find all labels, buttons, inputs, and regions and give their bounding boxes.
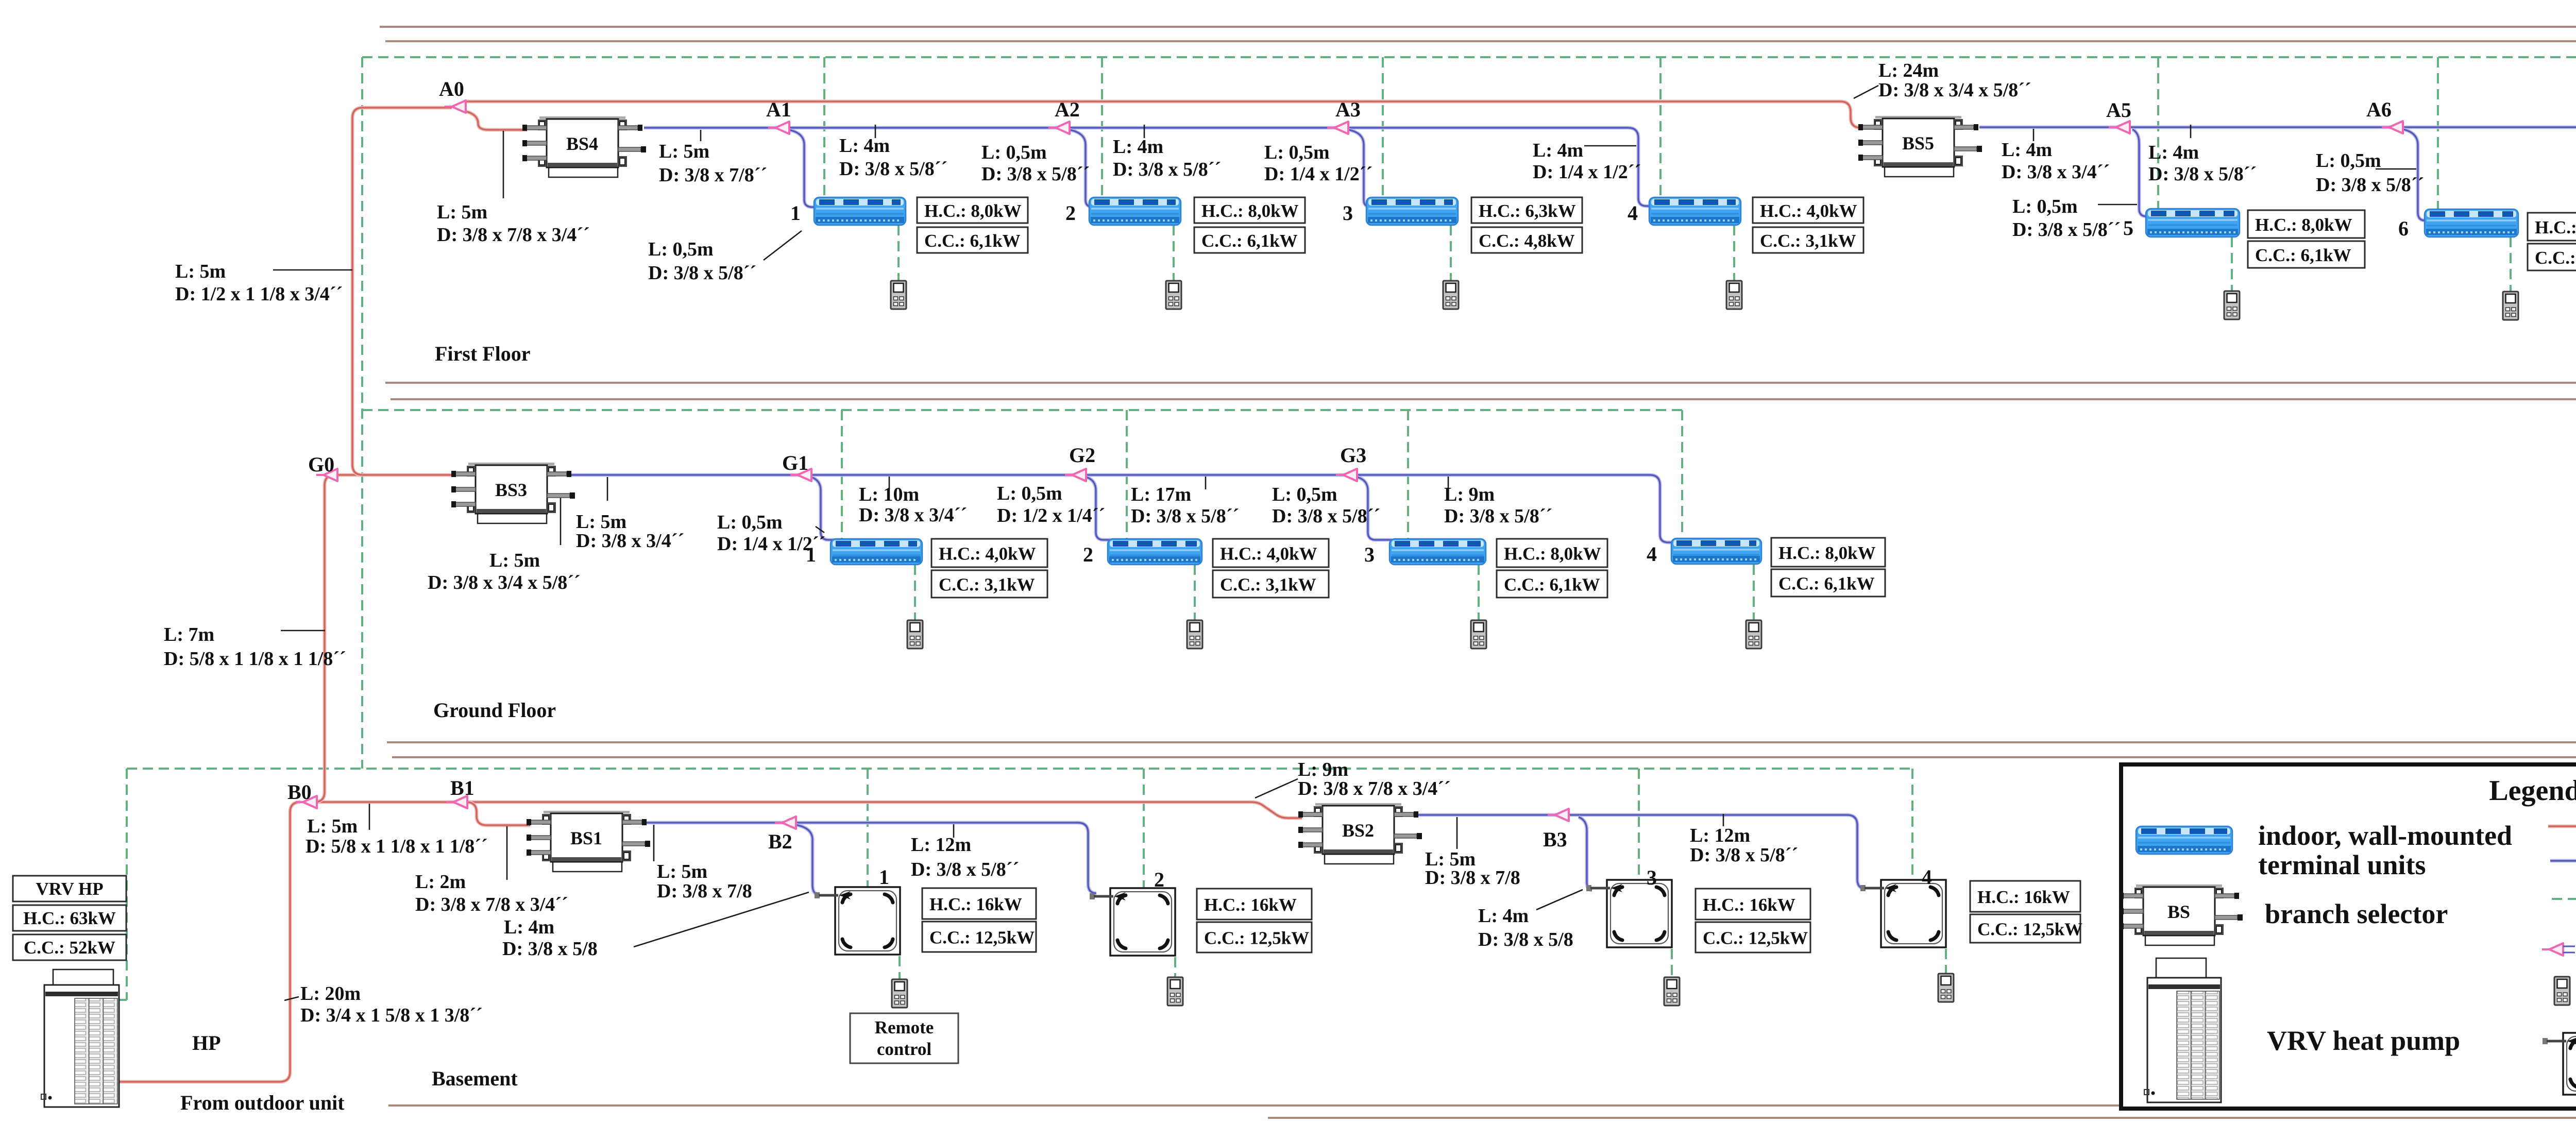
svg-text:Ground Floor: Ground Floor — [433, 699, 556, 722]
branch selector BS5 — [1858, 116, 1982, 177]
capacity box H.C.: 4,0kW at 1808,1046 — [931, 539, 1047, 567]
capacity box C.C.: 6,1kW at 2905,1107 — [1497, 570, 1607, 598]
capacity box H.C.: 16kW at 2323,1725 — [1197, 889, 1312, 920]
indoor wall-mounted terminal unit: ground floor unit 4 — [1671, 538, 1761, 564]
capacity box C.C.: 3,1kW at 3402,441 — [1753, 227, 1863, 253]
svg-text:BS4: BS4 — [566, 133, 598, 154]
svg-text:C.C.: 6,1kW: C.C.: 6,1kW — [1201, 231, 1298, 251]
svg-text:L: 7m: L: 7m — [164, 624, 214, 645]
pipe label unit5 drop — [2012, 196, 2121, 241]
svg-text:L: 24m: L: 24m — [1878, 60, 1939, 81]
svg-text:L: 4m: L: 4m — [839, 135, 890, 157]
svg-text:H.C.: 4,0kW: H.C.: 4,0kW — [1760, 201, 1857, 221]
svg-text:H.C.: 16kW: H.C.: 16kW — [1977, 887, 2070, 907]
svg-text:VRV HP: VRV HP — [36, 879, 103, 899]
leader: unit5 drop label — [2098, 204, 2137, 206]
svg-text:C.C.: 12,5kW: C.C.: 12,5kW — [1703, 928, 1808, 948]
svg-text:C.C.: 12,5kW: C.C.: 12,5kW — [1977, 920, 2082, 940]
remote control F1 — [891, 281, 906, 309]
capacity box H.C.: 4,0kW at 2354,1046 — [1213, 539, 1329, 567]
pipe label A2 drop — [981, 142, 1090, 185]
svg-text:C.C.: 12,5kW: C.C.: 12,5kW — [1204, 928, 1309, 948]
capacity box C.C.: 12,5kW at 3824,1775 — [1970, 914, 2080, 943]
signal line: drop to heat pump — [126, 769, 128, 1000]
floor slab line (top, lower) — [385, 40, 2576, 42]
refrigerant flow separator A3 — [1327, 122, 1348, 134]
pipe: double refrigerant, A6 branch to unit 6 — [2403, 129, 2428, 220]
svg-text:D: 1/4 x 1/2´´: D: 1/4 x 1/2´´ — [1533, 161, 1641, 183]
svg-text:3: 3 — [1364, 543, 1375, 566]
svg-text:D: 3/8 x 7/8 x 3/4´´: D: 3/8 x 7/8 x 3/4´´ — [1298, 778, 1451, 799]
svg-text:H.C.: 4,0kW: H.C.: 4,0kW — [1220, 544, 1317, 564]
svg-text:C.C.: 6,1kW: C.C.: 6,1kW — [924, 231, 1021, 251]
remote control B2 — [1167, 977, 1183, 1006]
svg-text:D: 3/8 x 5/8´´: D: 3/8 x 5/8´´ — [1444, 505, 1552, 527]
VRV heat pump (outdoor unit) — [41, 969, 119, 1107]
pipe: triple refrigerant, B1 branch into BS1 — [466, 802, 530, 825]
svg-text:A5: A5 — [2106, 98, 2131, 122]
svg-text:D: 3/8 x 5/8: D: 3/8 x 5/8 — [1478, 929, 1573, 950]
svg-text:2: 2 — [1065, 201, 1076, 225]
capacity box C.C.: 12,5kW at 3291,1790 — [1696, 922, 1810, 952]
legend signal line symbol — [2552, 898, 2576, 900]
svg-text:B0: B0 — [287, 780, 312, 804]
svg-text:H.C.: 8,0kW: H.C.: 8,0kW — [1201, 201, 1299, 221]
svg-text:D: 1/2 x 1 1/8 x 3/4´´: D: 1/2 x 1 1/8 x 3/4´´ — [175, 283, 343, 305]
svg-text:D: 3/8 x 5/8´´: D: 3/8 x 5/8´´ — [911, 859, 1019, 880]
svg-text:1: 1 — [879, 865, 889, 889]
capacity box C.C.: 3,1kW at 2354,1107 — [1213, 570, 1329, 598]
pipe: double refrigerant, BS1 to B2 and unit 2 — [645, 823, 1096, 893]
pipe label A2 segment — [1113, 136, 1221, 180]
svg-text:D: 1/2 x 1/4´´: D: 1/2 x 1/4´´ — [997, 505, 1105, 526]
pipe label BS1 right — [657, 861, 752, 902]
pipe: double refrigerant, B3 branch to basement unit 3 — [1579, 817, 1592, 890]
svg-text:4: 4 — [1647, 542, 1657, 566]
svg-text:BS: BS — [2167, 901, 2190, 922]
svg-text:6: 6 — [2398, 217, 2409, 240]
capacity box H.C.: 6,3kW at 2856,383 — [1471, 197, 1582, 223]
capacity box C.C.: 3,1kW at 1808,1107 — [931, 570, 1047, 598]
svg-text:L: 5m: L: 5m — [175, 261, 226, 282]
signal line: bus drop to basement unit x=2220 — [1143, 769, 1145, 888]
floor slab line (bottom) — [388, 1104, 2576, 1107]
svg-text:C.C.: 3,1kW: C.C.: 3,1kW — [1220, 575, 1316, 595]
pipe label G1 segment — [859, 484, 967, 526]
pipe: triple refrigerant, riser B0 to G0 — [325, 475, 335, 792]
pipe: double refrigerant, A5 branch to unit 5 — [2132, 129, 2149, 216]
pipe label BS5 right — [2002, 139, 2110, 183]
legend box — [2121, 764, 2576, 1109]
pipe: triple refrigerant, heat pump to B0 riser — [119, 802, 300, 1082]
pipe label basement unit1 — [502, 916, 598, 960]
svg-text:L: 12m: L: 12m — [1690, 825, 1750, 846]
signal line: bus drop to wall unit x=4189 — [2157, 57, 2159, 209]
svg-text:L: 5m: L: 5m — [659, 141, 709, 162]
svg-text:L: 9m: L: 9m — [1444, 484, 1495, 505]
svg-text:L: 9m: L: 9m — [1298, 759, 1348, 780]
signal line: drop to basement unit 4 — [1911, 769, 1913, 880]
capacity box H.C.: 8,0kW at 2318,383 — [1194, 197, 1305, 223]
svg-text:control: control — [877, 1039, 932, 1059]
signal line: bus drop to basement unit x=1684 — [867, 769, 869, 887]
svg-text:H.C.: 16kW: H.C.: 16kW — [1204, 895, 1297, 915]
svg-text:G0: G0 — [308, 453, 334, 476]
pipe: double refrigerant, BS3 to G1 G2 G3 and ground unit 4 — [571, 475, 1674, 542]
signal line: bus drop to wall unit x=3223 — [1659, 57, 1662, 197]
svg-text:First Floor: First Floor — [435, 342, 531, 365]
svg-text:D: 3/8 x 7/8 x 3/4´´: D: 3/8 x 7/8 x 3/4´´ — [437, 224, 590, 246]
svg-text:D: 3/8 x 7/8: D: 3/8 x 7/8 — [1425, 867, 1520, 889]
capacity box C.C.: 12,5kW at 1790,1789 — [922, 922, 1036, 952]
svg-text:H.C.: 16kW: H.C.: 16kW — [1703, 895, 1795, 915]
leader: G1 drop label hook — [816, 526, 824, 533]
leader: BS3 right label — [607, 477, 608, 501]
svg-text:D: 3/8 x 5/8: D: 3/8 x 5/8 — [502, 938, 598, 960]
capacity box H.C.: 8,0kW at 1780,383 — [917, 197, 1028, 223]
svg-text:L: 0,5m: L: 0,5m — [981, 142, 1047, 163]
svg-text:L: 4m: L: 4m — [2148, 142, 2199, 163]
capacity box C.C.: 12,5kW at 2323,1790 — [1197, 922, 1312, 952]
svg-text:L: 4m: L: 4m — [1113, 136, 1163, 158]
leader: HP pipe label — [284, 997, 299, 1000]
branch selector BS3 — [451, 463, 575, 523]
svg-text:L: 5m: L: 5m — [489, 550, 540, 571]
indoor roof-mounted terminal unit: basement unit 2 — [1090, 888, 1175, 956]
floor slab line (below first floor, upper) — [385, 382, 2576, 384]
leader: unit6 drop label — [2376, 168, 2416, 170]
pipe label basement riser — [306, 815, 488, 857]
pipe label BS4 right — [659, 141, 767, 186]
refrigerant flow separator G3 — [1336, 469, 1357, 481]
svg-text:H.C.: 63kW: H.C.: 63kW — [23, 908, 116, 928]
svg-text:D: 3/8 x 5/8´´: D: 3/8 x 5/8´´ — [648, 262, 756, 284]
pipe: triple refrigerant, A0 to BS5 long line — [464, 101, 1863, 128]
refrigerant flow separator B1 — [446, 796, 467, 808]
indoor roof-mounted terminal unit: basement unit 4 — [1860, 880, 1946, 947]
pipe label G2 segment — [1131, 484, 1239, 527]
pipe label A1 segment — [839, 135, 947, 180]
svg-text:3: 3 — [1343, 201, 1353, 225]
legend roof-mounted unit symbol — [2543, 1033, 2576, 1095]
svg-text:Basement: Basement — [432, 1067, 518, 1090]
refrigerant flow separator A2 — [1048, 122, 1070, 134]
signal line: basement bus — [127, 768, 1912, 770]
pipe: double refrigerant, BS2 to B3 and unit 4 — [1417, 815, 1866, 889]
svg-text:1: 1 — [790, 201, 801, 225]
svg-text:C.C.: 12,5kW: C.C.: 12,5kW — [929, 928, 1035, 948]
leader: L9m G3 segment — [1448, 477, 1449, 489]
pipe label BS3 right — [576, 511, 684, 552]
capacity box H.C.: 8,0kW at 3438,1044 — [1771, 538, 1885, 567]
signal line: wall unit to remote x=3366 — [1733, 225, 1735, 281]
pipe: double refrigerant, G2 branch to ground unit 2 — [1086, 477, 1111, 540]
svg-text:H.C.: 8,0kW: H.C.: 8,0kW — [924, 201, 1022, 221]
leader: BS3 left label — [560, 497, 562, 545]
leader: BS2 right label — [1456, 817, 1458, 849]
signal line: ground floor bus — [362, 409, 1682, 411]
leader: BS5 right label — [2033, 129, 2035, 141]
leader: BS1 left label — [506, 826, 508, 880]
legend remote control symbol — [2554, 977, 2570, 1005]
pipe label G1 drop — [717, 512, 825, 555]
svg-text:C.C.: 3,1kW: C.C.: 3,1kW — [939, 575, 1035, 595]
pipe: triple refrigerant, riser joins B0 — [314, 792, 325, 802]
svg-text:L: 10m: L: 10m — [859, 484, 919, 505]
refrigerant flow separator G1 — [790, 469, 811, 481]
leader: basement unit1 label — [634, 892, 809, 947]
remote control F6 — [2503, 292, 2518, 320]
svg-text:terminal units: terminal units — [2258, 849, 2426, 880]
svg-text:L: 4m: L: 4m — [1478, 905, 1529, 927]
svg-text:D: 1/4 x 1/2´´: D: 1/4 x 1/2´´ — [1264, 163, 1372, 185]
svg-text:A6: A6 — [2366, 98, 2392, 121]
svg-text:H.C.: 8,0kW: H.C.: 8,0kW — [1504, 544, 1601, 564]
floor slab line (below ground floor, upper) — [387, 741, 2576, 743]
svg-text:H.C.: 16kW: H.C.: 16kW — [929, 894, 1022, 914]
signal line: drop to ground unit 4 — [1681, 410, 1683, 538]
svg-text:H.C.: 4,0kW: H.C.: 4,0kW — [939, 544, 1036, 564]
signal line: basement unit to remote x=2281 — [1174, 957, 1176, 977]
indoor roof-mounted terminal unit: basement unit 3 — [1586, 880, 1672, 947]
pipe label BS1 left — [415, 871, 568, 915]
svg-text:D: 3/8 x 5/8´´: D: 3/8 x 5/8´´ — [1131, 505, 1239, 527]
signal line: bus drop to wall unit x=2139 — [1101, 57, 1103, 197]
indoor wall-mounted terminal unit: first floor unit 5 — [2146, 209, 2240, 237]
refrigerant flow separator A5 — [2109, 121, 2130, 133]
svg-text:C.C.: 4,8kW: C.C.: 4,8kW — [1479, 231, 1575, 251]
svg-text:D: 3/8 x 5/8´´: D: 3/8 x 5/8´´ — [1113, 159, 1221, 180]
indoor roof-mounted terminal unit: basement unit 1 — [815, 887, 900, 955]
branch selector BS4 — [522, 116, 646, 177]
svg-text:H.C.: 8,0kW: H.C.: 8,0kW — [2535, 217, 2576, 237]
pipe label unit1 drop — [648, 239, 756, 284]
svg-text:B2: B2 — [768, 830, 792, 853]
leader: L4m A1 segment — [875, 125, 876, 138]
svg-text:G2: G2 — [1069, 444, 1095, 467]
svg-text:L: 4m: L: 4m — [504, 916, 554, 938]
svg-text:2: 2 — [1083, 543, 1093, 566]
signal line: bus drop to basement unit x=3181 — [1638, 769, 1640, 880]
remote control F5 — [2224, 291, 2240, 319]
capacity box C.C.: 6,1kW at 4906,473 — [2528, 244, 2576, 270]
svg-text:D: 3/4 x 1 5/8 x 1 3/8´´: D: 3/4 x 1 5/8 x 1 3/8´´ — [300, 1005, 483, 1026]
svg-text:A3: A3 — [1335, 98, 1361, 121]
signal line: ground unit to remote x=3404 — [1753, 565, 1755, 620]
indoor wall-mounted terminal unit: ground floor unit 2 — [1108, 539, 1202, 565]
svg-text:L: 2m: L: 2m — [415, 871, 466, 893]
remote control B4 — [1938, 974, 1954, 1002]
refrigerant flow separator A1 — [768, 122, 789, 134]
leader: L17m G2 segment — [1205, 477, 1207, 489]
indoor wall-mounted terminal unit: first floor unit 6 — [2425, 209, 2518, 237]
signal line: into heat pump — [119, 999, 127, 1001]
refrigerant flow separator A0 — [445, 100, 466, 113]
signal line: wall unit to remote x=1744 — [897, 225, 900, 281]
capacity box H.C.: 8,0kW at 2905,1046 — [1497, 539, 1607, 567]
signal line: basement unit to remote x=3777 — [1945, 949, 1947, 974]
pipe label first floor riser — [175, 261, 343, 305]
signal line: wall unit to remote x=4332 — [2231, 237, 2233, 291]
pipe: triple refrigerant, B0 to B1 to BS2 jog — [304, 802, 1302, 818]
svg-text:L: 5m: L: 5m — [576, 511, 626, 533]
pipe: triple refrigerant, A0 horizontal into arrow — [363, 106, 452, 110]
signal line: wall unit to remote x=4873 — [2510, 237, 2512, 292]
pipe: double refrigerant, BS4 to A1 A2 A3 and unit 4 — [644, 128, 1652, 206]
capacity box H.C.: 16kW at 1790,1724 — [922, 888, 1036, 919]
floor slab line (bottom right, lower) — [1268, 1117, 2576, 1119]
pipe: double refrigerant, G3 branch to ground unit 3 — [1357, 477, 1392, 540]
pipe: double refrigerant, A1 branch to unit 1 — [789, 130, 817, 207]
capacity box C.C.: 6,1kW at 2318,441 — [1194, 227, 1305, 253]
leader: unit1 drop label — [764, 231, 802, 260]
pipe label BS4 left — [437, 201, 590, 246]
svg-text:D: 3/8 x 5/8´´: D: 3/8 x 5/8´´ — [2148, 163, 2257, 185]
svg-text:D: 3/8 x 3/4´´: D: 3/8 x 3/4´´ — [576, 530, 684, 552]
pipe: double refrigerant, B2 branch to basement unit 1 — [795, 825, 817, 894]
remote control F4 — [1726, 281, 1742, 309]
svg-text:H.C.: 8,0kW: H.C.: 8,0kW — [2255, 215, 2352, 235]
signal line: ground unit to remote x=2870 — [1478, 565, 1480, 620]
remote control G3 — [1471, 620, 1486, 649]
remote control G4 — [1746, 620, 1761, 649]
legend wall-mounted unit symbol — [2136, 826, 2232, 854]
leader: basement unit3 label — [1536, 890, 1583, 910]
svg-text:BS5: BS5 — [1902, 133, 1934, 154]
legend VRV heat pump symbol — [2144, 958, 2221, 1102]
svg-text:C.C.: 52kW: C.C.: 52kW — [24, 938, 115, 958]
svg-text:4: 4 — [1628, 201, 1638, 225]
signal line: bus drop to wall unit x=4732 — [2437, 57, 2439, 209]
svg-text:Remote: Remote — [875, 1017, 934, 1037]
pipe label A5 segment — [2148, 142, 2257, 185]
pipe label BS2 right — [1425, 848, 1520, 889]
svg-text:L: 4m: L: 4m — [2002, 139, 2052, 161]
svg-text:D: 3/8 x 3/4 x 5/8´´: D: 3/8 x 3/4 x 5/8´´ — [428, 572, 581, 593]
branch selector BS1 — [527, 811, 650, 872]
signal line: wall unit to remote x=2278 — [1173, 225, 1175, 281]
svg-text:D: 3/8 x 5/8´´: D: 3/8 x 5/8´´ — [2012, 219, 2121, 241]
svg-text:A1: A1 — [766, 98, 791, 121]
pipe label HP feed — [300, 983, 483, 1026]
pipe label ground riser — [164, 624, 346, 670]
svg-text:L: 0,5m: L: 0,5m — [1264, 142, 1330, 163]
leader: L12m B3 segment — [1723, 814, 1724, 826]
svg-text:D: 3/8 x 3/4´´: D: 3/8 x 3/4´´ — [2002, 161, 2110, 183]
leader: BS4 right label — [700, 130, 702, 141]
capacity box C.C.: 6,1kW at 1780,441 — [917, 227, 1028, 253]
legend double refrigerant pipeline symbol — [2550, 859, 2576, 863]
pipe: triple refrigerant, A0 branch into BS4 — [465, 111, 527, 130]
svg-text:D: 3/8 x 5/8´´: D: 3/8 x 5/8´´ — [1272, 505, 1380, 527]
svg-text:branch selector: branch selector — [2265, 898, 2448, 929]
pipe label G3 segment — [1444, 484, 1552, 527]
svg-text:D: 3/8 x 5/8´´: D: 3/8 x 5/8´´ — [2316, 174, 2424, 196]
signal line: ground unit to remote x=1776 — [914, 565, 916, 620]
pipe: triple refrigerant, riser joins G0 — [352, 465, 363, 475]
floor slab line (below ground floor, lower) — [392, 756, 2576, 758]
leader: L24m label — [1854, 86, 1878, 98]
signal line: main vertical (left) — [361, 57, 363, 769]
svg-text:C.C.: 6,1kW: C.C.: 6,1kW — [2255, 245, 2351, 265]
svg-text:G1: G1 — [782, 451, 808, 474]
pipe label B3 segment — [1690, 825, 1798, 866]
leader: ground riser label — [281, 630, 325, 632]
signal line: first floor bus — [362, 56, 2576, 58]
capacity box C.C.: 6,1kW at 4363,468 — [2248, 241, 2365, 268]
remote control B1 — [892, 979, 907, 1008]
svg-text:C.C.: 6,1kW: C.C.: 6,1kW — [2535, 248, 2576, 268]
svg-text:indoor, wall-mounted: indoor, wall-mounted — [2258, 820, 2512, 851]
svg-text:2: 2 — [1154, 868, 1164, 891]
indoor wall-mounted terminal unit: ground floor unit 3 — [1389, 539, 1486, 565]
refrigerant flow separator B2 — [775, 816, 796, 829]
indoor wall-mounted terminal unit: first floor unit 2 — [1089, 197, 1181, 225]
refrigerant flow separator legend — [2542, 943, 2563, 956]
signal line: bus drop to ground unit x=1634 — [841, 410, 843, 539]
floor slab line (top, upper) — [380, 26, 2576, 28]
svg-text:L: 5m: L: 5m — [307, 815, 358, 837]
pipe label B2 segment — [911, 834, 1019, 880]
svg-text:H.C.: 8,0kW: H.C.: 8,0kW — [1778, 543, 1876, 563]
svg-text:BS2: BS2 — [1342, 820, 1374, 841]
svg-text:L: 0,5m: L: 0,5m — [2316, 150, 2381, 172]
svg-text:BS1: BS1 — [570, 828, 602, 848]
pipe: triple refrigerant, riser G0 to A0 — [352, 108, 363, 465]
pipe label G3 drop — [1272, 484, 1380, 527]
capacity box H.C.: 8,0kW at 4906,413 — [2528, 213, 2576, 241]
leader: L4m A2 segment — [1144, 125, 1145, 138]
leader: L9m BS2 label — [1255, 779, 1298, 798]
capacity box H.C.: 16kW at 3291,1725 — [1696, 889, 1810, 920]
refrigerant flow separator G0 — [316, 469, 337, 481]
svg-text:L: 0,5m: L: 0,5m — [1272, 484, 1337, 505]
leader: L10m G1 segment — [889, 477, 890, 489]
svg-text:L: 0,5m: L: 0,5m — [648, 239, 714, 260]
capacity box C.C.: 6,1kW at 3438,1105 — [1771, 569, 1885, 597]
remote control B3 — [1664, 977, 1680, 1006]
svg-text:D: 3/8 x 3/4´´: D: 3/8 x 3/4´´ — [859, 504, 967, 526]
svg-text:B3: B3 — [1543, 828, 1567, 851]
legend triple refrigerant pipeline symbol — [2548, 825, 2576, 828]
svg-text:4: 4 — [1922, 865, 1932, 889]
svg-text:H.C.: 6,3kW: H.C.: 6,3kW — [1479, 201, 1576, 221]
indoor wall-mounted terminal unit: first floor unit 1 — [814, 197, 906, 225]
svg-text:L: 5m: L: 5m — [437, 201, 487, 223]
pipe label BS3 left — [428, 550, 581, 593]
indoor wall-mounted terminal unit: first floor unit 4 — [1649, 197, 1741, 225]
svg-text:HP: HP — [192, 1031, 221, 1054]
signal line: wall unit to remote x=2816 — [1450, 225, 1452, 281]
svg-text:D: 3/8 x 7/8 x 3/4´´: D: 3/8 x 7/8 x 3/4´´ — [415, 894, 568, 915]
capacity box H.C.: 8,0kW at 4363,408 — [2248, 210, 2365, 238]
svg-text:BS3: BS3 — [495, 480, 527, 500]
svg-text:L: 0,5m: L: 0,5m — [997, 483, 1062, 504]
capacity box H.C.: 4,0kW at 3402,383 — [1753, 197, 1863, 223]
svg-text:L: 4m: L: 4m — [1533, 140, 1583, 161]
svg-text:C.C.: 3,1kW: C.C.: 3,1kW — [1760, 231, 1856, 251]
pipe: double refrigerant, A3 branch to unit 3 — [1349, 130, 1375, 207]
capacity box H.C.: 16kW at 3824,1710 — [1970, 881, 2080, 912]
pipe label A3 drop — [1264, 142, 1372, 185]
svg-text:D: 3/8 x 3/4 x 5/8´´: D: 3/8 x 3/4 x 5/8´´ — [1878, 79, 2031, 101]
svg-text:C.C.: 6,1kW: C.C.: 6,1kW — [1778, 574, 1875, 594]
svg-text:L: 0,5m: L: 0,5m — [717, 512, 783, 533]
svg-text:D: 3/8 x 5/8´´: D: 3/8 x 5/8´´ — [981, 163, 1090, 185]
svg-text:D: 3/8 x 5/8´´: D: 3/8 x 5/8´´ — [1690, 844, 1798, 866]
svg-text:D: 1/4 x 1/2´´: D: 1/4 x 1/2´´ — [717, 533, 825, 555]
pipe: triple refrigerant, G0 branch to BS3 — [327, 473, 455, 477]
